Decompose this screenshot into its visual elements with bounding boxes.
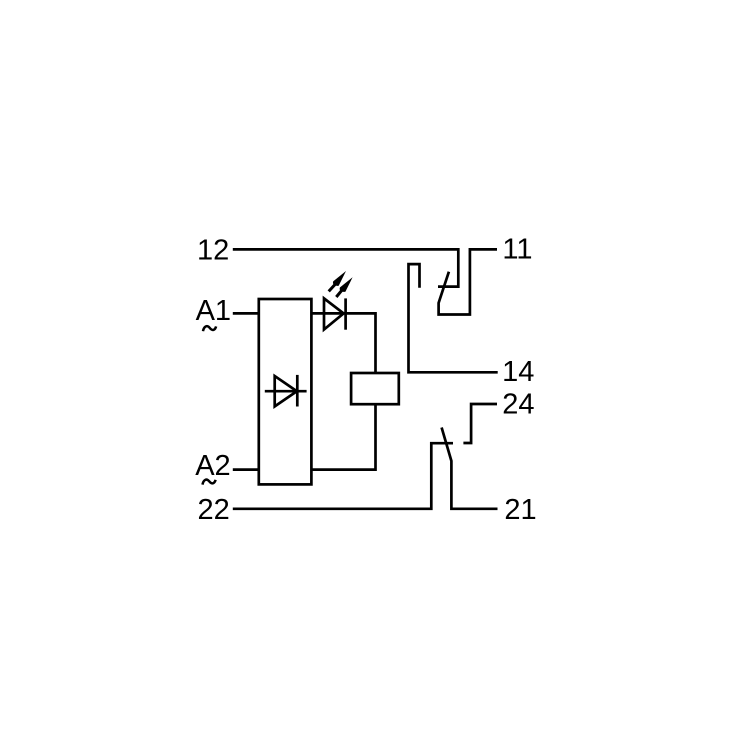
LED V2 triangle [324,298,344,329]
wire relay coil to A2 net [311,404,375,469]
AC tilde under A2 [203,480,216,485]
wire terminal 11 lead, common pole and moving contact of K1.1 [439,249,497,314]
wire terminal A1 lead [233,312,259,315]
svg-text:11: 11 [502,233,532,265]
wire terminal 22 lead and NC fixed contact of K1.2 [233,443,453,509]
svg-text:A2: A2 [195,450,230,482]
diode V1 triangle [275,376,297,406]
LED V2 light arrow 2 head [340,277,353,292]
svg-text:12: 12 [197,234,229,266]
wire terminal 24 lead and NO fixed contact of K1.2 [463,404,497,443]
AC tilde under A1 [203,326,216,331]
svg-text:14: 14 [502,356,534,388]
svg-text:A1: A1 [196,295,231,327]
rectifier bridge box B1 [259,299,312,484]
LED V2 light arrow 2 tail [336,291,341,297]
diode V1 cathode bar [296,375,299,407]
wire terminal 14 lead and NO fixed contact hook of K1.1 [409,264,498,372]
LED V2 cathode bar [344,298,347,329]
wire terminal 21 lead, common pole and moving contact of K1.2 [442,428,498,509]
wire terminal A2 lead [233,468,259,471]
svg-text:24: 24 [502,388,534,420]
relay coil K1 [351,373,399,404]
svg-text:21: 21 [504,494,536,526]
LED V2 light arrow 1 tail [329,285,335,292]
wire LED to relay coil [311,313,375,373]
svg-text:22: 22 [198,494,230,526]
LED V2 light arrow 1 head [333,271,346,286]
diode V1 lead inside rectifier [265,390,307,393]
wire terminal 12 lead and NC fixed contact of K1.1 [233,249,458,286]
